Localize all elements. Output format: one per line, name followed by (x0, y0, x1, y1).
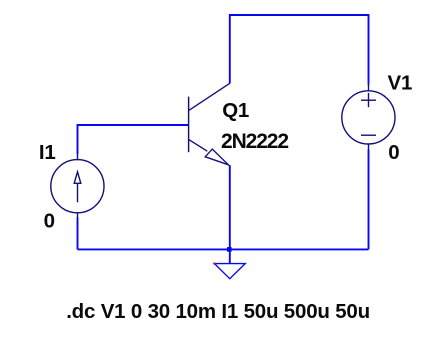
svg-text:Q1: Q1 (222, 99, 249, 122)
transistor Q1 (189, 83, 230, 166)
svg-text:0: 0 (388, 141, 399, 164)
ground (214, 264, 245, 279)
svg-text:V1: V1 (388, 71, 413, 94)
wire collector-top-V1 run (230, 15, 369, 85)
wire base to I1 (78, 125, 189, 154)
svg-text:.dc V1 0 30 10m I1 50u 500u 50: .dc V1 0 30 10m I1 50u 500u 50u (66, 300, 370, 323)
svg-text:I1: I1 (39, 141, 56, 164)
wire ground stub (229, 249, 231, 263)
voltage source V1 (342, 84, 395, 150)
wire bottom rail (78, 248, 369, 250)
current source I1 (51, 154, 104, 218)
wire emitter down (229, 165, 231, 249)
ground red anchor dot (213, 263, 215, 265)
wire I1 bottom (77, 217, 79, 249)
svg-text:0: 0 (44, 210, 55, 233)
node junction square (227, 247, 232, 252)
wire V1 bottom (368, 150, 370, 250)
svg-text:2N2222: 2N2222 (221, 130, 288, 153)
